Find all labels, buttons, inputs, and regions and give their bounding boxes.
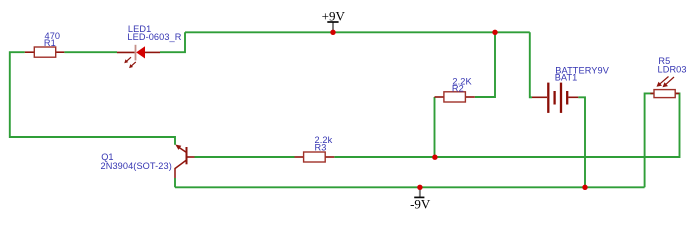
wire: rail down to battery left [530, 32, 532, 97]
resistor R3 [295, 152, 335, 162]
label R3 value 2.2k [315, 135, 333, 145]
junction dot at rail / R2 branch [492, 30, 497, 35]
label LED1 value [127, 32, 181, 42]
battery BAT1 [532, 83, 578, 113]
resistor R2 [435, 92, 475, 102]
label R1 name [44, 38, 56, 48]
junction dot at base row / R2 branch [432, 155, 437, 160]
svg-text:-9V: -9V [410, 196, 431, 211]
junction dot at bottom rail / battery branch [582, 185, 587, 190]
junction dot at +9V rail [330, 30, 335, 35]
label BAT1 name [555, 73, 578, 83]
label R3 name [315, 142, 327, 152]
svg-text:R3: R3 [315, 142, 327, 152]
wire: rail junction down to R2 right [475, 32, 495, 97]
svg-text:2N3904(SOT-23): 2N3904(SOT-23) [101, 161, 172, 171]
junction dot at -9V rail [417, 185, 422, 190]
label Q1 name [101, 152, 113, 162]
label R5 name [658, 56, 670, 66]
wire: LED right up to +9V rail [160, 32, 185, 52]
label R2 value 2.2K [452, 77, 472, 87]
wire: R1 left to left rail corner [10, 52, 175, 145]
wire: LDR left down to bottom rail [645, 93, 654, 187]
label LED1 name [128, 24, 151, 34]
label R2 name [452, 84, 464, 94]
label BAT1 value BATTERY9V [555, 65, 609, 75]
label R5 value LDR03 [658, 64, 687, 74]
wire: R1 right to LED anode [64, 51, 117, 53]
resistor R1 [25, 47, 65, 57]
svg-text:LED-0603_R: LED-0603_R [127, 32, 181, 42]
svg-text:R2: R2 [452, 84, 464, 94]
label Q1 value [101, 161, 172, 171]
wire: battery right down to bottom rail [578, 97, 585, 187]
wire: R2 left down to base row junction [434, 97, 436, 157]
svg-text:+9V: +9V [322, 8, 346, 23]
wire: base row R3 to LDR right drop [334, 93, 679, 157]
power +9V symbol [322, 8, 346, 32]
wire: base row Q1 base to R3 [195, 156, 295, 158]
power -9V symbol [410, 187, 431, 211]
LED LED1 [117, 45, 160, 68]
svg-text:BAT1: BAT1 [555, 73, 578, 83]
wire: Q1 collector down to bottom rail [174, 178, 176, 187]
transistor Q1 [175, 145, 195, 179]
wire: bottom -9V rail [175, 186, 645, 188]
wire: +9V top rail [185, 31, 530, 33]
label R1 value 470 [45, 31, 61, 41]
svg-text:R1: R1 [44, 38, 56, 48]
LDR R5 [650, 77, 679, 98]
svg-text:LDR03: LDR03 [658, 64, 687, 74]
